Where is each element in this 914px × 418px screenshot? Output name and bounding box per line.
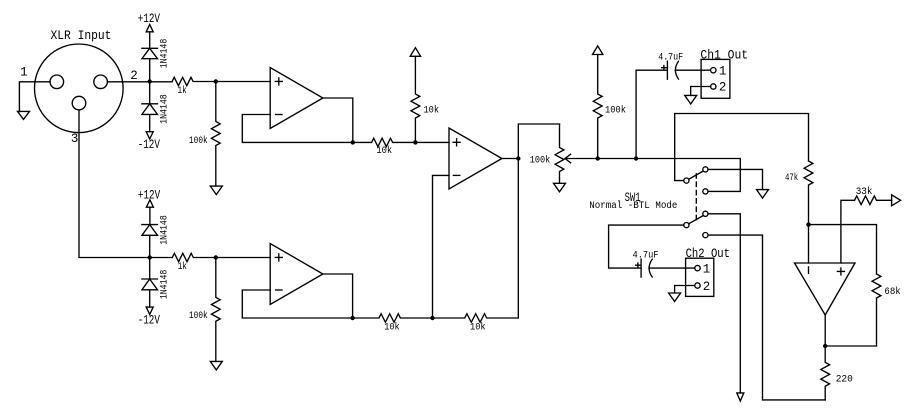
wire pole A up and over to 47k (675, 114, 809, 181)
op-amp 1 (top buffer) (270, 68, 323, 129)
svg-text:1: 1 (20, 66, 28, 80)
svg-text:-12V: -12V (138, 313, 161, 327)
svg-text:10k: 10k (470, 322, 486, 334)
svg-text:68k: 68k (884, 286, 900, 298)
Ch2 Out connector box (686, 258, 714, 296)
junction cap1 branch (634, 156, 638, 160)
cap1 plus sign (662, 66, 666, 70)
svg-text:33k: 33k (856, 186, 873, 198)
junction pin2 node (148, 79, 152, 83)
wire op-amp2 feedback (242, 290, 352, 318)
XLR pin 2 (94, 75, 108, 89)
SW1 throw A2 circle (703, 189, 708, 194)
junction op-amp1 out node (351, 140, 355, 144)
Ch2 pin 1 circle (695, 265, 700, 270)
ground (Ch1 pin2) (685, 95, 697, 104)
diode 1N4148 (pin3 to +12V) (142, 225, 158, 258)
svg-text:1k: 1k (178, 261, 187, 273)
wire to diff amp + input (415, 141, 449, 143)
op-amp1 plus symbol (275, 78, 282, 85)
svg-text:XLR Input: XLR Input (51, 29, 112, 43)
Ch2 pin 2 circle (695, 283, 700, 288)
XLR pin 1 (50, 75, 64, 89)
op-amp4 minus symbol (rotated) (808, 267, 810, 273)
wire pole B to cap2 (609, 225, 684, 268)
svg-text:Normal -BTL Mode: Normal -BTL Mode (589, 200, 677, 212)
XLR connector shell (35, 44, 124, 133)
svg-text:100k: 100k (530, 155, 551, 167)
wire node down to op-amp4 - input (808, 225, 810, 263)
wire diff amp output (502, 158, 518, 160)
wire Ch2 pin2 to ground (675, 286, 695, 294)
wire pin3 down to bottom channel (79, 110, 172, 258)
svg-text:220: 220 (836, 373, 853, 385)
svg-text:3: 3 (71, 132, 79, 146)
SW1 pole A lever (689, 171, 703, 179)
svg-text:Ch1 Out: Ch1 Out (700, 49, 748, 63)
resistor 1k (bottom) (172, 253, 216, 261)
svg-text:10k: 10k (384, 322, 399, 334)
op-amp3 plus symbol (453, 139, 460, 146)
svg-text:Ch2 Out: Ch2 Out (686, 247, 730, 261)
ground (Ch2 pin2) (669, 293, 681, 302)
wire Ch1 pin2 to ground (691, 87, 711, 96)
wire node right to 68k top (809, 225, 877, 274)
resistor 68k (872, 274, 881, 346)
net arrow down (throw B1) (737, 393, 744, 401)
wire diff out up to pot (518, 124, 559, 159)
pot wiper arrow (565, 154, 598, 163)
svg-text:10k: 10k (424, 105, 440, 117)
resistor 47k (804, 161, 813, 225)
net arrow up (10k bias) (410, 48, 420, 57)
svg-text:100k: 100k (605, 105, 626, 117)
SW1 throw A1 circle (703, 167, 708, 172)
capacitor 4.7uF (Ch2) plus plate (640, 259, 642, 277)
Ch1 Out connector box (701, 59, 730, 98)
wire cap1 to Ch1 pin1 (675, 69, 710, 71)
wire out node to 68k bottom (825, 345, 876, 347)
Ch1 pin 2 circle (711, 84, 716, 89)
svg-text:10k: 10k (376, 145, 392, 157)
svg-text:+12V: +12V (138, 12, 161, 26)
cap2 plus sign (636, 263, 640, 267)
op-amp1 minus symbol (276, 114, 282, 116)
resistor 1k (top) (172, 77, 216, 85)
resistor 10k (bottom, to diff amp -) (353, 314, 433, 323)
wire op-amp4 output (824, 315, 826, 346)
capacitor 4.7uF (Ch1) plus plate (666, 61, 668, 79)
diode 1N4148 (pin2 to +12V) (142, 48, 158, 81)
ground (pot bottom) (554, 183, 566, 192)
wire to op-amp2 + input (216, 257, 270, 259)
op-amp 2 (bottom buffer) (270, 244, 323, 305)
diode 1N4148 (pin2 to -12V) (142, 82, 158, 132)
ground (throw A1) (757, 190, 769, 199)
wire pin1 to ground (19, 82, 50, 112)
resistor 100k (top bias) (211, 82, 220, 187)
svg-text:2: 2 (703, 280, 711, 294)
svg-text:1k: 1k (178, 85, 187, 97)
wire main output rail to switch throw A2 (598, 159, 741, 192)
capacitor 4.7uF (Ch1) curved plate (675, 61, 678, 79)
net arrow up (100k) (593, 46, 603, 55)
svg-text:1N4148: 1N4148 (159, 94, 171, 124)
wire op-amp1 feedback (242, 115, 352, 143)
ground (XLR pin1) (18, 111, 30, 119)
Ch1 pin 1 circle (711, 68, 716, 73)
resistor 10k (top, to diff amp) (353, 138, 416, 146)
svg-text:100k: 100k (189, 310, 208, 322)
op-amp2 plus symbol (275, 254, 282, 261)
wire throw A1 to ground (708, 169, 762, 189)
svg-text:100k: 100k (189, 135, 208, 147)
svg-text:+12V: +12V (138, 188, 161, 202)
svg-text:1N4148: 1N4148 (159, 270, 171, 300)
-12V net arrow (bottom clamp) (146, 307, 153, 314)
resistor 10k (diff amp feedback) (433, 314, 519, 323)
svg-text:1N4148: 1N4148 (159, 215, 171, 245)
wire op-amp1 output (323, 98, 353, 142)
op-amp 4 (BTL inverter, points down) (795, 263, 856, 315)
resistor 33k (855, 196, 892, 205)
wire throw B1 to down net arrow (708, 214, 740, 393)
+12V net arrow (bottom clamp) (146, 200, 153, 225)
wire cap2 to Ch2 pin1 (649, 267, 695, 269)
svg-text:4.7uF: 4.7uF (633, 250, 659, 262)
switch SW1 pole B circle (684, 223, 689, 228)
junction wiper node (596, 156, 600, 160)
+12V net arrow (top clamp) (146, 24, 153, 48)
svg-text:2: 2 (130, 69, 138, 83)
SW1 throw B2 circle (703, 233, 708, 238)
SW1 throw B1 circle (703, 211, 708, 216)
junction diff out node (516, 156, 520, 160)
wire 220 bottom to throw B2 (708, 235, 825, 400)
resistor 220 (821, 346, 830, 400)
XLR pin 3 (72, 96, 86, 110)
wire cap1 branch up (636, 70, 667, 158)
op-amp3 minus symbol (453, 174, 459, 176)
ground (under bottom 100k) (210, 361, 222, 370)
svg-text:4.7uF: 4.7uF (658, 52, 683, 64)
junction diff amp + node (413, 140, 417, 144)
SW1 pole B lever (689, 216, 703, 224)
SW1 mechanical link (dashed) (695, 174, 697, 222)
op-amp4 plus symbol (837, 268, 844, 275)
svg-text:-12V: -12V (138, 138, 161, 152)
wire op-amp2 output (323, 274, 353, 318)
resistor 10k (vertical bias) (411, 56, 420, 142)
junction node after bottom 1k (214, 255, 218, 259)
wire to op-amp1 + input (216, 81, 270, 83)
net arrow right (33k output) (892, 195, 901, 206)
ground (under top 100k) (210, 186, 222, 195)
wire diff amp - input feedback (433, 175, 450, 318)
-12V net arrow (top clamp) (146, 132, 153, 139)
svg-text:47k: 47k (785, 172, 798, 184)
junction pin3 node (148, 255, 152, 259)
diode 1N4148 (pin3 to -12V) (142, 258, 158, 308)
capacitor 4.7uF (Ch2) curved plate (649, 259, 652, 277)
svg-text:1N4148: 1N4148 (159, 39, 171, 69)
junction op-amp4 out node (823, 344, 827, 348)
wire diff out down to feedback rail (517, 159, 519, 319)
switch SW1 pole A circle (684, 178, 689, 183)
junction op-amp2 out node (350, 316, 354, 320)
resistor 100k (bottom bias) (211, 258, 220, 362)
potentiometer 100k body (555, 124, 564, 183)
wire op-amp4 + input up to 33k (841, 200, 855, 263)
svg-text:1: 1 (703, 263, 711, 277)
op-amp 3 (difference amp) (449, 128, 502, 189)
op-amp2 minus symbol (276, 289, 282, 291)
wire pin2 to 1k (107, 81, 172, 83)
resistor 100k (vertical, to net arrow) (593, 55, 602, 159)
junction 47k bottom node (806, 222, 810, 226)
svg-text:1: 1 (719, 64, 727, 78)
svg-text:2: 2 (719, 81, 727, 95)
junction node after 1k (214, 79, 218, 83)
junction diff amp - node (430, 316, 434, 320)
